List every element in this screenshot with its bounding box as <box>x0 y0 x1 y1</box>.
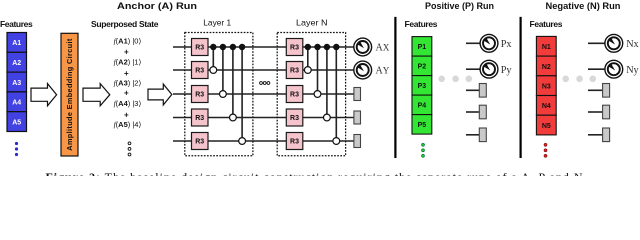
label Ny <box>626 65 639 76</box>
svg-text:N2: N2 <box>542 64 551 71</box>
layerN target circle qubit4 <box>324 114 331 121</box>
svg-text:f(A2) |1⟩: f(A2) |1⟩ <box>114 58 142 67</box>
gate R3 layer1 qubit1 <box>192 39 209 56</box>
wire to P discard bar 3 <box>466 134 479 136</box>
superposed state term f(A5)|4> <box>114 120 142 129</box>
svg-text:A3: A3 <box>12 80 21 87</box>
layerN target circle qubit5 <box>333 138 340 145</box>
wire to N discard bar 3 <box>588 134 603 136</box>
svg-text:+: + <box>124 89 129 98</box>
wire to P discard bar 1 <box>466 89 479 91</box>
svg-text:Anchor (A) Run: Anchor (A) Run <box>117 1 197 12</box>
svg-text:Px: Px <box>501 39 512 50</box>
superposed state term f(A4)|3> <box>114 99 142 108</box>
svg-text:+: + <box>124 111 129 120</box>
svg-text:N5: N5 <box>542 123 551 130</box>
layer1 target circle qubit2 <box>210 67 217 74</box>
svg-text:R3: R3 <box>195 45 204 52</box>
gate R3 layerN qubit2 <box>286 62 303 79</box>
feature box N1 <box>536 36 556 56</box>
feature box A3 <box>7 72 27 92</box>
svg-text:AY: AY <box>376 66 390 77</box>
discard bar N qubit3 <box>603 84 610 98</box>
feature box P2 <box>412 56 432 76</box>
svg-text:R3: R3 <box>290 92 299 99</box>
measurement gauge AX <box>354 38 372 56</box>
feature box A5 <box>7 112 27 132</box>
arrow from features to embedding circuit <box>31 84 57 106</box>
feature box P1 <box>412 37 432 57</box>
wire to Py gauge <box>466 68 480 70</box>
measurement gauge AY <box>354 61 372 79</box>
svg-text:+: + <box>124 69 129 78</box>
separator line between anchor and positive runs <box>394 17 396 158</box>
svg-text:P2: P2 <box>418 64 427 71</box>
discard bar P qubit3 <box>479 84 486 98</box>
feature box N2 <box>536 56 556 76</box>
layerN entangler vertical line 1 <box>307 47 309 70</box>
svg-text:A4: A4 <box>12 100 21 107</box>
svg-text:N1: N1 <box>542 44 551 51</box>
svg-text:R3: R3 <box>195 68 204 75</box>
svg-text:R3: R3 <box>290 45 299 52</box>
layer1 control dots on qubit1 <box>210 44 245 51</box>
qubit wire 5 <box>173 140 354 142</box>
svg-text:A1: A1 <box>12 40 21 47</box>
svg-text:Amplitude Embedding Circuit: Amplitude Embedding Circuit <box>65 38 74 151</box>
discard bar A qubit5 <box>354 135 361 148</box>
feature box A1 <box>7 33 27 53</box>
svg-text:N3: N3 <box>542 84 551 91</box>
svg-text:R3: R3 <box>195 139 204 146</box>
separator line between positive and negative runs <box>519 17 521 158</box>
svg-text:f(A3) |2⟩: f(A3) |2⟩ <box>114 79 142 88</box>
figure caption <box>46 170 583 184</box>
label Layer 1 <box>203 18 231 28</box>
superposed state term f(A3)|2> <box>114 79 142 88</box>
svg-text:f(A5) |4⟩: f(A5) |4⟩ <box>114 120 142 129</box>
svg-text:R3: R3 <box>195 92 204 99</box>
svg-text:f(A1) |0⟩: f(A1) |0⟩ <box>114 37 142 46</box>
svg-text:N4: N4 <box>542 103 551 110</box>
ellipsis between layers <box>260 82 270 85</box>
qubit wire 2 <box>173 69 354 71</box>
feature box P3 <box>412 76 432 96</box>
svg-text:R3: R3 <box>290 115 299 122</box>
svg-text:Features: Features <box>405 19 438 29</box>
layer1 target circle qubit3 <box>220 91 227 98</box>
label Nx <box>626 39 638 50</box>
measurement gauge Nx <box>605 34 623 52</box>
wire to Nx gauge <box>588 42 605 44</box>
label Features (anchor run) <box>0 19 33 29</box>
label AX <box>376 43 390 54</box>
measurement gauge Px <box>480 34 498 52</box>
ellipsis circles below superposed state <box>128 142 131 156</box>
arrow from superposed state to layer 1 <box>148 84 172 105</box>
header Positive (P) Run <box>425 1 494 12</box>
gate R3 layer1 qubit5 <box>192 133 209 150</box>
svg-text:Figure 2: The baseline design: Figure 2: The baseline design circuit co… <box>46 170 583 176</box>
layerN control dots on qubit1 <box>305 44 340 51</box>
layer 1 dashed box <box>185 33 253 156</box>
layer N dashed box <box>277 33 345 156</box>
superposed state term f(A1)|0> <box>114 37 142 46</box>
svg-text:P1: P1 <box>418 44 427 51</box>
discard bar P qubit5 <box>479 128 486 142</box>
feature box P5 <box>412 115 432 135</box>
label Features (positive run) <box>405 19 438 29</box>
qubit wire 4 <box>173 117 354 119</box>
svg-text:A5: A5 <box>12 119 21 126</box>
layerN target circle qubit3 <box>314 91 321 98</box>
gate R3 layer1 qubit4 <box>192 109 209 126</box>
wire to P discard bar 2 <box>466 111 479 113</box>
layer1 target circle qubit5 <box>239 138 246 145</box>
header Negative (N) Run <box>546 1 621 12</box>
gate R3 layerN qubit4 <box>286 109 303 126</box>
wire to N discard bar 2 <box>588 111 603 113</box>
measurement gauge Ny <box>605 60 623 78</box>
measurement gauge Py <box>480 60 498 78</box>
label AY <box>376 66 390 77</box>
gate R3 layer1 qubit3 <box>192 86 209 103</box>
layerN entangler vertical line 4 <box>335 47 337 141</box>
layerN entangler vertical line 3 <box>326 47 328 118</box>
feature box A2 <box>7 52 27 72</box>
feature box N3 <box>536 76 556 96</box>
label Features (negative run) <box>530 19 563 29</box>
label Superposed State <box>91 19 159 29</box>
gate R3 layerN qubit1 <box>286 39 303 56</box>
layer1 entangler vertical line 3 <box>232 47 234 118</box>
svg-text:P3: P3 <box>418 83 427 90</box>
discard bar N qubit5 <box>603 128 610 142</box>
svg-text:Layer N: Layer N <box>296 18 328 28</box>
layer1 entangler vertical line 4 <box>241 47 243 141</box>
qubit wire 3 <box>173 93 354 95</box>
svg-text:Features: Features <box>530 19 563 29</box>
discard bar A qubit3 <box>354 88 361 101</box>
layer1 entangler vertical line 2 <box>222 47 224 94</box>
gate R3 layerN qubit3 <box>286 86 303 103</box>
amplitude embedding circuit box <box>61 33 78 156</box>
svg-text:Ny: Ny <box>626 65 639 76</box>
plus sign 1 <box>124 47 129 56</box>
ellipsis dots below N features <box>544 143 547 157</box>
feature box A4 <box>7 92 27 112</box>
ellipsis dots below A features <box>15 142 18 156</box>
label Px <box>501 39 512 50</box>
ellipsis dots below P features <box>422 143 425 157</box>
svg-text:Features: Features <box>0 19 33 29</box>
svg-text:R3: R3 <box>290 139 299 146</box>
svg-text:Py: Py <box>501 65 513 76</box>
svg-text:Positive (P) Run: Positive (P) Run <box>425 1 494 12</box>
discard bar A qubit4 <box>354 111 361 124</box>
layer1 target circle qubit4 <box>230 114 237 121</box>
ellipsis grey dots positive run <box>438 76 472 83</box>
svg-text:Layer 1: Layer 1 <box>203 18 231 28</box>
plus sign 3 <box>124 89 129 98</box>
plus sign 4 <box>124 111 129 120</box>
discard bar N qubit4 <box>603 105 610 119</box>
svg-text:Nx: Nx <box>626 39 638 50</box>
svg-text:f(A4) |3⟩: f(A4) |3⟩ <box>114 99 142 108</box>
gate R3 layerN qubit5 <box>286 133 303 150</box>
svg-text:R3: R3 <box>195 115 204 122</box>
feature box N4 <box>536 96 556 116</box>
gate R3 layer1 qubit2 <box>192 62 209 79</box>
wire to N discard bar 1 <box>588 89 603 91</box>
layerN target circle qubit2 <box>304 67 311 74</box>
svg-text:+: + <box>124 47 129 56</box>
wire to Px gauge <box>466 42 480 44</box>
superposed state term f(A2)|1> <box>114 58 142 67</box>
layer1 entangler vertical line 1 <box>212 47 214 70</box>
ellipsis grey dots negative run <box>562 76 596 83</box>
header Anchor (A) Run <box>117 1 197 12</box>
svg-text:AX: AX <box>376 43 390 54</box>
arrow from embedding to superposed state <box>83 84 110 106</box>
svg-text:Superposed State: Superposed State <box>91 19 159 29</box>
svg-text:P5: P5 <box>418 122 427 129</box>
label Layer N <box>296 18 328 28</box>
svg-text:R3: R3 <box>290 68 299 75</box>
label Py <box>501 65 513 76</box>
feature box N5 <box>536 115 556 135</box>
qubit wire 1 <box>173 46 354 48</box>
layerN entangler vertical line 2 <box>317 47 319 94</box>
wire to Ny gauge <box>588 68 605 70</box>
svg-text:A2: A2 <box>12 60 21 67</box>
feature box P4 <box>412 95 432 115</box>
plus sign 2 <box>124 69 129 78</box>
svg-text:P4: P4 <box>418 103 427 110</box>
discard bar P qubit4 <box>479 105 486 119</box>
svg-text:Negative (N) Run: Negative (N) Run <box>546 1 621 12</box>
